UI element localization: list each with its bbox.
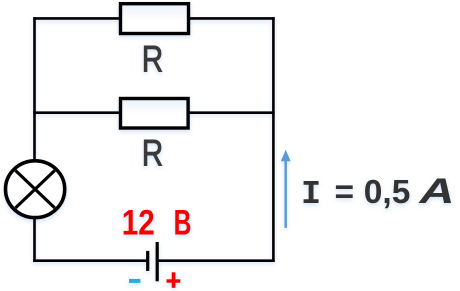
- label current: I = 0,5 A: [301, 171, 455, 214]
- svg-text:=: =: [335, 174, 355, 211]
- battery GB1: positive plate (long): [156, 242, 159, 281]
- wire: left vertical branch: [33, 17, 36, 262]
- wire: top branch, left segment: [33, 17, 121, 20]
- label R, top resistor: [142, 39, 164, 80]
- battery polarity label: minus: [129, 279, 140, 283]
- svg-text:I: I: [301, 176, 321, 214]
- wire: bottom branch, left segment: [33, 259, 146, 262]
- lamp EL1: [5, 161, 64, 218]
- wire: middle branch, right segment: [188, 111, 275, 114]
- label R, middle resistor: [142, 132, 164, 173]
- label battery voltage: 12 В: [122, 204, 192, 243]
- svg-text:R: R: [142, 39, 164, 80]
- svg-text:0,5: 0,5: [364, 174, 411, 211]
- wire: bottom branch, right segment: [158, 259, 275, 262]
- wire: top branch, right segment: [188, 17, 275, 20]
- resistor R (middle branch): [121, 99, 189, 129]
- battery polarity label: plus: [167, 272, 181, 288]
- battery GB1: negative plate (short): [146, 251, 149, 271]
- resistor R (top branch): [121, 4, 189, 34]
- svg-text:A: A: [418, 171, 454, 211]
- svg-text:В: В: [174, 204, 192, 243]
- current direction arrow: [281, 150, 291, 228]
- svg-text:12: 12: [122, 204, 155, 243]
- svg-text:R: R: [142, 132, 164, 173]
- wire: right vertical branch: [272, 17, 275, 262]
- wire: middle branch, left segment: [33, 111, 121, 114]
